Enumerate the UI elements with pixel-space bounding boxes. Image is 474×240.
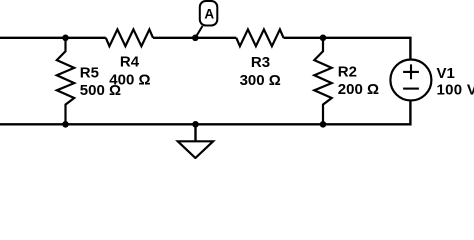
junction dot R2 bottom bbox=[320, 121, 327, 128]
resistor R5 bbox=[57, 38, 74, 125]
svg-text:300 Ω: 300 Ω bbox=[240, 72, 281, 89]
V1 plus sign bbox=[403, 64, 419, 79]
wire top rail right, corner down to V1 bbox=[284, 38, 411, 60]
V1 minus sign bbox=[403, 88, 419, 90]
svg-text:V1: V1 bbox=[437, 65, 455, 82]
resistor R2 bbox=[314, 38, 331, 125]
wire top rail bbox=[0, 37, 106, 39]
svg-text:R5: R5 bbox=[80, 65, 99, 82]
junction dot R2 top bbox=[320, 35, 327, 42]
node A label box bbox=[200, 1, 218, 26]
wire top rail middle bbox=[153, 37, 236, 39]
svg-text:100 V: 100 V bbox=[437, 82, 474, 99]
junction dot R5 top bbox=[62, 35, 69, 42]
wire bottom rail, corner up to V1 bbox=[0, 100, 410, 124]
svg-text:R4: R4 bbox=[120, 53, 140, 70]
svg-text:R2: R2 bbox=[338, 63, 357, 80]
node A flag line bbox=[195, 26, 202, 38]
resistor R4 bbox=[106, 29, 153, 46]
resistor R3 bbox=[236, 29, 283, 46]
ground triangle bbox=[178, 141, 213, 158]
svg-text:400 Ω: 400 Ω bbox=[109, 71, 150, 88]
ground stub bbox=[194, 124, 196, 141]
svg-text:200 Ω: 200 Ω bbox=[338, 81, 379, 98]
junction dot R5 bottom bbox=[62, 121, 69, 128]
voltage source V1 bbox=[390, 60, 431, 101]
svg-text:R3: R3 bbox=[251, 54, 270, 71]
junction dot node A bbox=[192, 35, 199, 42]
svg-text:A: A bbox=[204, 7, 214, 22]
junction dot ground bbox=[192, 121, 199, 128]
